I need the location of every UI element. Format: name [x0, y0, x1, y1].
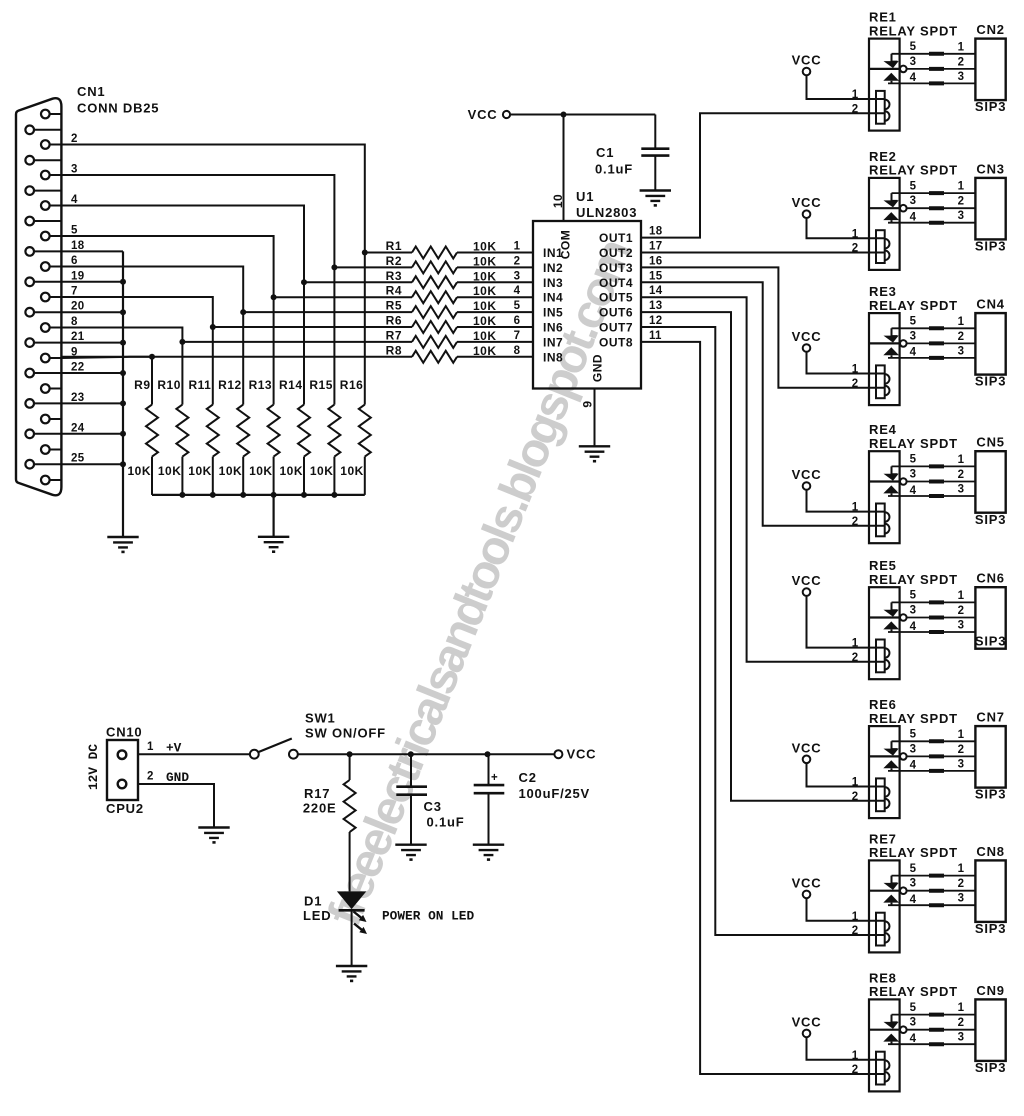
svg-text:SW1: SW1	[305, 711, 336, 726]
label U1 OUT5 pin 14	[599, 285, 663, 305]
wire RE1 contacts to CN2	[888, 41, 975, 83]
capacitor C2 100uF/25V	[474, 754, 590, 845]
svg-text:3: 3	[958, 345, 965, 357]
svg-text:VCC: VCC	[792, 467, 822, 482]
svg-text:R2: R2	[386, 254, 402, 268]
power VCC for RE4	[792, 467, 885, 512]
svg-text:OUT5: OUT5	[599, 291, 633, 305]
resistor R10 10K pulldown	[157, 342, 188, 495]
svg-text:2: 2	[852, 516, 859, 528]
svg-text:C2: C2	[519, 770, 537, 785]
svg-text:10K: 10K	[473, 269, 497, 283]
svg-text:IN1: IN1	[543, 246, 563, 260]
svg-text:RELAY SPDT: RELAY SPDT	[869, 845, 958, 860]
svg-text:VCC: VCC	[468, 107, 498, 122]
svg-text:5: 5	[71, 225, 78, 237]
svg-text:3: 3	[910, 1017, 917, 1029]
label U1 IN4	[543, 291, 563, 305]
svg-text:SIP3: SIP3	[975, 374, 1006, 389]
svg-text:3: 3	[958, 620, 965, 632]
wire CN1 pin 7	[61, 286, 215, 331]
power VCC for RE6	[792, 740, 885, 786]
wire OUT6 to RE6	[641, 312, 885, 801]
svg-text:CN5: CN5	[976, 435, 1004, 450]
svg-text:4: 4	[71, 194, 78, 206]
svg-text:VCC: VCC	[792, 195, 822, 210]
svg-text:22: 22	[71, 362, 84, 374]
connector CN6 SIP3	[975, 571, 1006, 649]
svg-text:8: 8	[514, 345, 521, 357]
label U1 OUT2 pin 17	[599, 241, 662, 261]
svg-text:+: +	[491, 772, 498, 784]
svg-text:CN8: CN8	[976, 844, 1004, 859]
label U1 OUT6 pin 13	[599, 300, 662, 320]
svg-text:4: 4	[910, 760, 917, 772]
svg-text:7: 7	[71, 286, 78, 298]
resistor R17 220E	[303, 754, 356, 891]
svg-text:OUT7: OUT7	[599, 321, 633, 335]
svg-text:CONN DB25: CONN DB25	[77, 101, 159, 116]
svg-text:18: 18	[649, 226, 663, 238]
resistor R7 10K row	[182, 328, 533, 348]
svg-text:1: 1	[958, 41, 965, 53]
wire VCC rail	[511, 112, 656, 118]
svg-text:10K: 10K	[473, 314, 497, 328]
svg-text:2: 2	[958, 56, 965, 68]
svg-text:5: 5	[910, 180, 917, 192]
resistor R15 10K pulldown	[309, 267, 340, 495]
label U1 IN6	[543, 321, 563, 335]
label U1 IN2	[543, 261, 563, 275]
wire OUT3 to RE3	[641, 267, 885, 387]
svg-text:2: 2	[958, 878, 965, 890]
ground (C3)	[395, 845, 426, 861]
wire U1 pin 9 GND	[581, 389, 595, 447]
svg-text:OUT3: OUT3	[599, 261, 633, 275]
svg-text:CN1: CN1	[77, 84, 105, 99]
svg-text:3: 3	[910, 743, 917, 755]
svg-text:3: 3	[958, 893, 965, 905]
svg-text:3: 3	[910, 56, 917, 68]
svg-text:3: 3	[958, 484, 965, 496]
svg-text:SIP3: SIP3	[975, 787, 1006, 802]
svg-text:2: 2	[852, 652, 859, 664]
svg-text:RE3: RE3	[869, 284, 897, 299]
svg-text:2: 2	[958, 331, 965, 343]
capacitor C3 0.1uF	[396, 754, 464, 845]
svg-text:10K: 10K	[473, 329, 497, 343]
svg-text:2: 2	[958, 196, 965, 208]
svg-text:RELAY SPDT: RELAY SPDT	[869, 711, 958, 726]
op-amp U1 ULN2803 box	[533, 189, 641, 389]
svg-text:2: 2	[71, 133, 78, 145]
ground (D1)	[336, 966, 367, 982]
svg-text:1: 1	[147, 741, 154, 753]
svg-text:CN10: CN10	[106, 725, 142, 740]
capacitor C1 0.1uF	[595, 115, 669, 191]
svg-text:5: 5	[910, 316, 917, 328]
relay RE6 RELAY SPDT	[852, 697, 958, 818]
svg-text:15: 15	[649, 270, 663, 282]
CN1 pins left column (14-25)	[25, 126, 61, 469]
resistor R12 10K pulldown	[218, 312, 249, 495]
svg-text:POWER ON LED: POWER ON LED	[382, 909, 474, 924]
svg-text:R4: R4	[386, 284, 402, 298]
svg-text:6: 6	[71, 255, 78, 267]
svg-text:5: 5	[910, 1002, 917, 1014]
resistor R16 10K pulldown	[340, 253, 371, 495]
svg-text:VCC: VCC	[792, 1014, 822, 1029]
svg-text:SIP3: SIP3	[975, 239, 1006, 254]
power VCC for RE2	[792, 195, 885, 238]
svg-text:10K: 10K	[473, 344, 497, 358]
label U1 IN8	[543, 350, 563, 364]
svg-text:10K: 10K	[310, 464, 334, 478]
svg-text:RELAY SPDT: RELAY SPDT	[869, 984, 958, 999]
svg-text:R13: R13	[249, 378, 273, 392]
svg-text:1: 1	[958, 863, 965, 875]
svg-text:2: 2	[958, 744, 965, 756]
wire RE8 contacts to CN9	[888, 1002, 975, 1044]
wire CN1 pin 6	[61, 255, 246, 315]
svg-text:1: 1	[958, 454, 965, 466]
svg-text:OUT8: OUT8	[599, 335, 633, 349]
svg-text:17: 17	[649, 241, 662, 253]
svg-text:9: 9	[581, 400, 595, 407]
label U1 OUT7 pin 12	[599, 315, 662, 335]
svg-text:SIP3: SIP3	[975, 1060, 1006, 1075]
svg-text:RELAY SPDT: RELAY SPDT	[869, 436, 958, 451]
svg-text:R12: R12	[218, 378, 242, 392]
ground (CN10)	[198, 828, 229, 844]
svg-text:16: 16	[649, 255, 662, 267]
svg-text:RE7: RE7	[869, 831, 897, 846]
svg-text:10K: 10K	[219, 464, 243, 478]
svg-text:2: 2	[852, 378, 859, 390]
label CONN DB25	[77, 101, 159, 116]
svg-text:CN7: CN7	[976, 710, 1004, 725]
svg-text:2: 2	[958, 469, 965, 481]
svg-text:RELAY SPDT: RELAY SPDT	[869, 23, 958, 38]
svg-text:220E: 220E	[303, 801, 337, 816]
svg-text:R10: R10	[157, 378, 181, 392]
resistor R3 10K row	[304, 269, 533, 289]
svg-text:10K: 10K	[158, 464, 182, 478]
svg-text:5: 5	[514, 300, 521, 312]
connector CN10 12V DC	[86, 725, 144, 817]
svg-text:3: 3	[910, 330, 917, 342]
svg-text:R15: R15	[309, 378, 333, 392]
svg-text:VCC: VCC	[792, 573, 822, 588]
resistor R1 10K row	[365, 239, 533, 259]
svg-text:100uF/25V: 100uF/25V	[519, 786, 591, 801]
svg-text:RELAY SPDT: RELAY SPDT	[869, 298, 958, 313]
svg-text:2: 2	[147, 771, 154, 783]
svg-text:10: 10	[551, 194, 565, 208]
svg-text:C1: C1	[596, 145, 614, 160]
svg-text:25: 25	[71, 453, 85, 465]
relay RE3 RELAY SPDT	[852, 284, 958, 405]
svg-text:D1: D1	[304, 894, 322, 909]
connector CN9 SIP3	[975, 983, 1006, 1075]
svg-text:CN9: CN9	[976, 983, 1004, 998]
svg-text:2: 2	[852, 791, 859, 803]
svg-text:10K: 10K	[473, 284, 497, 298]
svg-text:2: 2	[852, 243, 859, 255]
node VCC (top)	[468, 107, 510, 122]
wire CN1 pin 3	[61, 164, 337, 271]
wire CN1 ground bus (pins 18-25)	[61, 240, 126, 537]
wire CN1 pin 2	[61, 133, 367, 256]
ground (C2)	[473, 845, 504, 861]
svg-text:GND: GND	[166, 770, 189, 785]
svg-text:4: 4	[910, 72, 917, 84]
svg-text:IN3: IN3	[543, 276, 563, 290]
wire RE7 contacts to CN8	[888, 863, 975, 905]
svg-text:19: 19	[71, 270, 84, 282]
svg-text:SIP3: SIP3	[975, 512, 1006, 527]
resistor R8 10K row	[61, 343, 533, 363]
relay RE5 RELAY SPDT	[852, 558, 958, 679]
power VCC for RE7	[792, 875, 885, 920]
svg-text:R3: R3	[386, 269, 402, 283]
ground (C1)	[640, 191, 671, 207]
relay RE8 RELAY SPDT	[852, 970, 958, 1091]
svg-text:5: 5	[910, 454, 917, 466]
svg-text:12V DC: 12V DC	[86, 744, 101, 790]
svg-text:RE8: RE8	[869, 970, 897, 985]
connector CN7 SIP3	[975, 710, 1006, 802]
relay RE1 RELAY SPDT	[852, 10, 958, 131]
svg-text:SIP3: SIP3	[975, 634, 1006, 649]
svg-text:10K: 10K	[127, 464, 151, 478]
svg-text:18: 18	[71, 240, 85, 252]
svg-text:IN2: IN2	[543, 261, 563, 275]
svg-text:R5: R5	[386, 299, 402, 313]
svg-text:11: 11	[649, 330, 662, 342]
svg-text:4: 4	[910, 894, 917, 906]
wire switch to VCC	[298, 751, 555, 757]
resistor R11 10K pulldown	[188, 327, 219, 495]
svg-text:2: 2	[958, 605, 965, 617]
switch SW1 SW ON/OFF	[250, 711, 386, 759]
svg-text:IN7: IN7	[543, 335, 563, 349]
connector CN5 SIP3	[975, 435, 1006, 527]
svg-text:RE5: RE5	[869, 558, 897, 573]
svg-text:3: 3	[910, 604, 917, 616]
svg-text:5: 5	[910, 590, 917, 602]
label U1 IN7	[543, 335, 563, 349]
svg-text:VCC: VCC	[792, 740, 822, 755]
wire CN1 pin 4	[61, 194, 307, 285]
label U1 IN5	[543, 306, 563, 320]
svg-text:23: 23	[71, 392, 84, 404]
svg-text:R14: R14	[279, 378, 303, 392]
svg-text:6: 6	[514, 315, 521, 327]
resistor R13 10K pulldown	[249, 297, 280, 495]
svg-text:1: 1	[958, 181, 965, 193]
wire CN1 pin 5	[61, 225, 276, 301]
resistor R2 10K row	[334, 254, 533, 274]
svg-text:R7: R7	[386, 328, 402, 342]
ground (CN1 bus)	[107, 537, 138, 553]
svg-text:RELAY SPDT: RELAY SPDT	[869, 572, 958, 587]
svg-text:VCC: VCC	[792, 53, 822, 68]
svg-text:3: 3	[514, 270, 521, 282]
svg-text:R6: R6	[386, 314, 402, 328]
svg-text:3: 3	[958, 758, 965, 770]
svg-text:IN6: IN6	[543, 321, 563, 335]
power VCC for RE3	[792, 329, 885, 374]
svg-text:0.1uF: 0.1uF	[427, 815, 465, 830]
svg-text:IN5: IN5	[543, 306, 563, 320]
svg-text:OUT2: OUT2	[599, 246, 633, 260]
wire RE5 contacts to CN6	[888, 590, 975, 632]
wire CN1 pin 8	[61, 316, 185, 345]
ground (U1 pin 9)	[579, 446, 610, 462]
svg-text:R9: R9	[134, 378, 150, 392]
svg-text:3: 3	[910, 468, 917, 480]
resistor R14 10K pulldown	[279, 282, 310, 495]
svg-text:+V: +V	[166, 741, 182, 756]
svg-text:3: 3	[958, 210, 965, 222]
svg-text:RE1: RE1	[869, 10, 897, 25]
power VCC for RE1	[792, 53, 885, 100]
svg-text:R11: R11	[188, 378, 211, 392]
svg-text:3: 3	[71, 164, 78, 176]
power VCC for RE8	[792, 1014, 885, 1059]
svg-text:12: 12	[649, 315, 662, 327]
wire OUT5 to RE5	[641, 297, 885, 662]
svg-text:3: 3	[958, 71, 965, 83]
wire CN10 pin 1 +V	[138, 741, 250, 756]
svg-text:14: 14	[649, 285, 663, 297]
svg-text:7: 7	[514, 330, 521, 342]
svg-text:R1: R1	[386, 239, 402, 253]
label U1 OUT3 pin 16	[599, 255, 662, 275]
wire RE3 contacts to CN4	[888, 316, 975, 358]
wire pulldown ground bus	[152, 492, 365, 537]
svg-text:CN6: CN6	[976, 571, 1004, 586]
svg-text:10K: 10K	[473, 299, 497, 313]
label U1 OUT8 pin 11	[599, 330, 662, 350]
label U1 IN3	[543, 276, 563, 290]
wire RE4 contacts to CN5	[888, 454, 975, 496]
svg-text:IN4: IN4	[543, 291, 563, 305]
svg-text:10K: 10K	[249, 464, 273, 478]
wire CN1 pin 9	[61, 347, 155, 360]
svg-text:C3: C3	[424, 799, 442, 814]
svg-text:4: 4	[514, 285, 521, 297]
diode D1 LED	[303, 891, 474, 966]
wire OUT2 to RE2	[641, 252, 885, 254]
svg-text:2: 2	[514, 255, 521, 267]
svg-text:24: 24	[71, 422, 85, 434]
svg-text:2: 2	[852, 103, 859, 115]
svg-text:IN8: IN8	[543, 350, 563, 364]
relay RE4 RELAY SPDT	[852, 422, 958, 543]
svg-text:R16: R16	[340, 378, 364, 392]
svg-text:2: 2	[852, 1064, 859, 1076]
svg-text:3: 3	[910, 195, 917, 207]
svg-text:RE2: RE2	[869, 149, 897, 164]
ground (pulldown bus)	[258, 537, 289, 553]
connector CN3 SIP3	[975, 161, 1006, 253]
svg-text:OUT4: OUT4	[599, 276, 633, 290]
svg-text:10K: 10K	[473, 240, 497, 254]
resistor R5 10K row	[243, 299, 533, 319]
wire OUT1 to RE1	[641, 113, 885, 237]
svg-text:3: 3	[910, 878, 917, 890]
wire RE6 contacts to CN7	[888, 729, 975, 771]
CN1 pins right column (1-13)	[41, 110, 61, 485]
svg-text:10K: 10K	[188, 464, 212, 478]
svg-text:10K: 10K	[473, 254, 497, 268]
connector CN8 SIP3	[975, 844, 1006, 936]
svg-text:8: 8	[71, 316, 78, 328]
wire U1 pin 10	[551, 115, 565, 222]
svg-text:1: 1	[958, 729, 965, 741]
svg-text:LED: LED	[303, 908, 331, 923]
svg-text:5: 5	[910, 41, 917, 53]
svg-text:VCC: VCC	[567, 747, 597, 762]
svg-text:CN2: CN2	[976, 22, 1004, 37]
resistor R6 10K row	[213, 314, 533, 334]
svg-text:1: 1	[958, 590, 965, 602]
wire CN10 pin 2 GND	[138, 770, 214, 828]
connector CN1 DB25 body	[16, 98, 61, 495]
svg-text:13: 13	[649, 300, 662, 312]
svg-text:20: 20	[71, 301, 84, 313]
svg-text:SIP3: SIP3	[975, 921, 1006, 936]
connector CN4 SIP3	[975, 297, 1006, 389]
svg-text:VCC: VCC	[792, 875, 822, 890]
svg-text:5: 5	[910, 863, 917, 875]
svg-text:RE4: RE4	[869, 422, 897, 437]
svg-text:2: 2	[958, 1017, 965, 1029]
svg-text:SIP3: SIP3	[975, 99, 1006, 114]
svg-text:CN3: CN3	[976, 161, 1004, 176]
svg-text:1: 1	[958, 316, 965, 328]
svg-text:R8: R8	[386, 343, 402, 357]
wire OUT7 to RE7	[641, 327, 885, 935]
wire OUT8 to RE8	[641, 342, 885, 1074]
svg-text:CPU2: CPU2	[106, 801, 144, 816]
svg-text:3: 3	[958, 1032, 965, 1044]
svg-text:4: 4	[910, 1033, 917, 1045]
svg-text:U1: U1	[576, 189, 594, 204]
svg-text:ULN2803: ULN2803	[576, 205, 637, 220]
wire OUT4 to RE4	[641, 282, 885, 526]
svg-text:2: 2	[852, 925, 859, 937]
svg-text:CN4: CN4	[976, 297, 1004, 312]
svg-text:OUT6: OUT6	[599, 306, 633, 320]
watermark freeelectricalsandtools.blogspot.com	[318, 234, 642, 933]
svg-text:4: 4	[910, 485, 917, 497]
svg-text:4: 4	[910, 212, 917, 224]
label U1 OUT1 pin 18	[599, 226, 663, 246]
svg-text:VCC: VCC	[792, 329, 822, 344]
connector CN2 SIP3	[975, 22, 1006, 114]
label U1 IN1	[543, 246, 563, 260]
svg-text:R17: R17	[304, 786, 330, 801]
relay RE2 RELAY SPDT	[852, 149, 958, 270]
svg-text:1: 1	[514, 241, 521, 253]
resistor R9 10K pulldown	[127, 357, 158, 495]
svg-text:4: 4	[910, 621, 917, 633]
svg-text:4: 4	[910, 347, 917, 359]
svg-text:OUT1: OUT1	[599, 231, 633, 245]
